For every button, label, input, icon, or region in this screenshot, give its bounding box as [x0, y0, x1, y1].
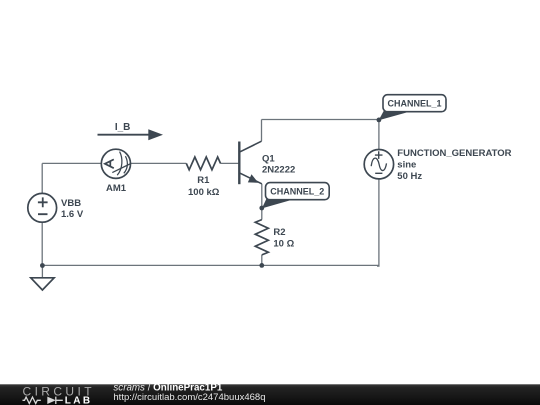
svg-text:2N2222: 2N2222 — [262, 165, 295, 176]
svg-text:R1: R1 — [197, 175, 210, 186]
wire collector lead — [261, 120, 263, 142]
wire top rail — [262, 119, 379, 121]
transistor Q1 — [239, 141, 261, 184]
transistor Q1 emitter arrow — [249, 175, 258, 182]
node at CHANNEL_2 probe — [259, 206, 264, 211]
svg-text:FUNCTION_GENERATOR: FUNCTION_GENERATOR — [397, 148, 511, 159]
function generator — [364, 150, 393, 179]
wire base rail — [42, 162, 186, 164]
probe CHANNEL_1 tail — [379, 110, 411, 121]
svg-text:R2: R2 — [273, 227, 285, 238]
ammeter AM1 — [101, 149, 130, 178]
svg-text:Q1: Q1 — [262, 153, 275, 164]
current arrow I_B — [98, 129, 164, 140]
probe CHANNEL_1 box — [383, 95, 446, 112]
voltage source VBB — [28, 193, 57, 222]
footer logo waveform — [23, 397, 63, 404]
svg-text:sine: sine — [397, 160, 416, 171]
resistor R2 — [255, 220, 268, 255]
svg-text:50 Hz: 50 Hz — [397, 171, 422, 182]
probe CHANNEL_2 tail — [262, 198, 293, 209]
svg-text:VBB: VBB — [61, 198, 81, 209]
wire emitter to R2 — [261, 184, 263, 220]
wire base rail right of R1 — [220, 162, 239, 164]
wire R2 to bottom rail — [261, 255, 263, 266]
svg-text:10 Ω: 10 Ω — [273, 239, 294, 250]
svg-text:AM1: AM1 — [106, 183, 127, 194]
svg-text:LAB: LAB — [65, 395, 93, 405]
svg-text:CHANNEL_1: CHANNEL_1 — [387, 99, 441, 109]
footer bar — [0, 384, 540, 405]
wire bottom rail — [42, 264, 379, 266]
svg-text:CHANNEL_2: CHANNEL_2 — [270, 187, 324, 197]
svg-text:I_B: I_B — [115, 122, 131, 133]
svg-text:http://circuitlab.com/c2474buu: http://circuitlab.com/c2474buux468q — [113, 392, 265, 403]
probe CHANNEL_2 box — [266, 183, 330, 200]
svg-text:100 kΩ: 100 kΩ — [188, 187, 220, 198]
node ground junction — [40, 263, 45, 268]
ground — [31, 266, 54, 291]
node R2 bottom junction — [259, 263, 264, 268]
resistor R1 — [186, 157, 220, 170]
svg-text:1.6 V: 1.6 V — [61, 209, 84, 220]
wire right branch — [377, 120, 379, 267]
footer logo diode — [47, 397, 56, 404]
node at CHANNEL_1 probe — [377, 118, 382, 123]
wire left branch VBB — [41, 163, 43, 265]
